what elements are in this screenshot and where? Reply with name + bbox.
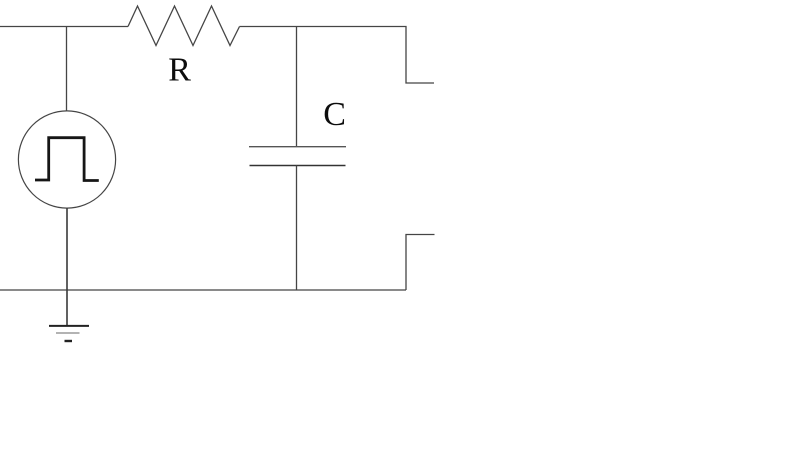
svg-text:R: R bbox=[168, 51, 191, 88]
svg-text:C: C bbox=[323, 96, 346, 133]
